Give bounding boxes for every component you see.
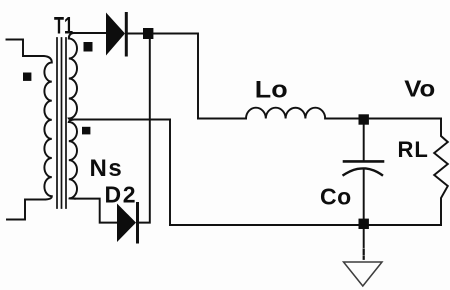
junction dot (bottom rail / ground node)	[359, 219, 369, 229]
polarity dot (secondary center)	[82, 127, 90, 135]
wire: center tap of Ns	[75, 119, 171, 121]
diode D2	[117, 204, 136, 243]
transformer T1 primary winding	[44, 56, 52, 200]
junction dot (Vo node)	[359, 114, 369, 124]
wire: secondary top to diode D1 anode	[74, 32, 107, 34]
svg-text:Vo: Vo	[404, 77, 435, 102]
transformer core	[56, 38, 58, 208]
wire: primary top input lead	[7, 40, 44, 57]
transformer secondary winding Ns (upper half)	[69, 33, 77, 120]
wire: center tap down to bottom rail	[169, 120, 171, 226]
ground lead (dashed)	[363, 230, 365, 247]
polarity dot (primary)	[23, 73, 31, 81]
wire: Co bottom lead	[363, 169, 365, 220]
wire: junction down to D2 cathode	[140, 39, 150, 223]
wire: Vo node to RL	[369, 118, 441, 120]
resistor RL	[434, 119, 448, 226]
svg-text:D2: D2	[105, 182, 138, 208]
svg-text:Co: Co	[320, 184, 352, 210]
wire: primary bottom input lead	[7, 200, 44, 220]
wire: bottom rail	[170, 224, 441, 226]
svg-text:Ns: Ns	[90, 155, 124, 182]
capacitor Co top plate	[344, 160, 383, 163]
diode D1 (top rectifier)	[106, 13, 125, 56]
svg-text:Lo: Lo	[255, 77, 288, 103]
svg-text:RL: RL	[398, 137, 429, 162]
wire: secondary bottom lead to D2 anode	[75, 199, 117, 223]
wire: D1 cathode to junction	[128, 33, 143, 35]
polarity dot (secondary top)	[84, 42, 93, 52]
wire: Lo left lead	[198, 118, 246, 120]
junction dot (rectifier output node)	[143, 28, 153, 39]
wire: Vo node down to Co	[363, 125, 365, 160]
capacitor Co curved plate	[344, 168, 383, 175]
wire: junction to Lo (top rail, step down)	[153, 34, 246, 119]
transformer secondary winding Ns (lower half)	[69, 120, 77, 199]
wire: Lo to Vo node	[325, 118, 358, 120]
inductor Lo	[246, 108, 325, 119]
svg-text:T1: T1	[54, 12, 73, 39]
ground symbol (triangle)	[344, 262, 383, 286]
